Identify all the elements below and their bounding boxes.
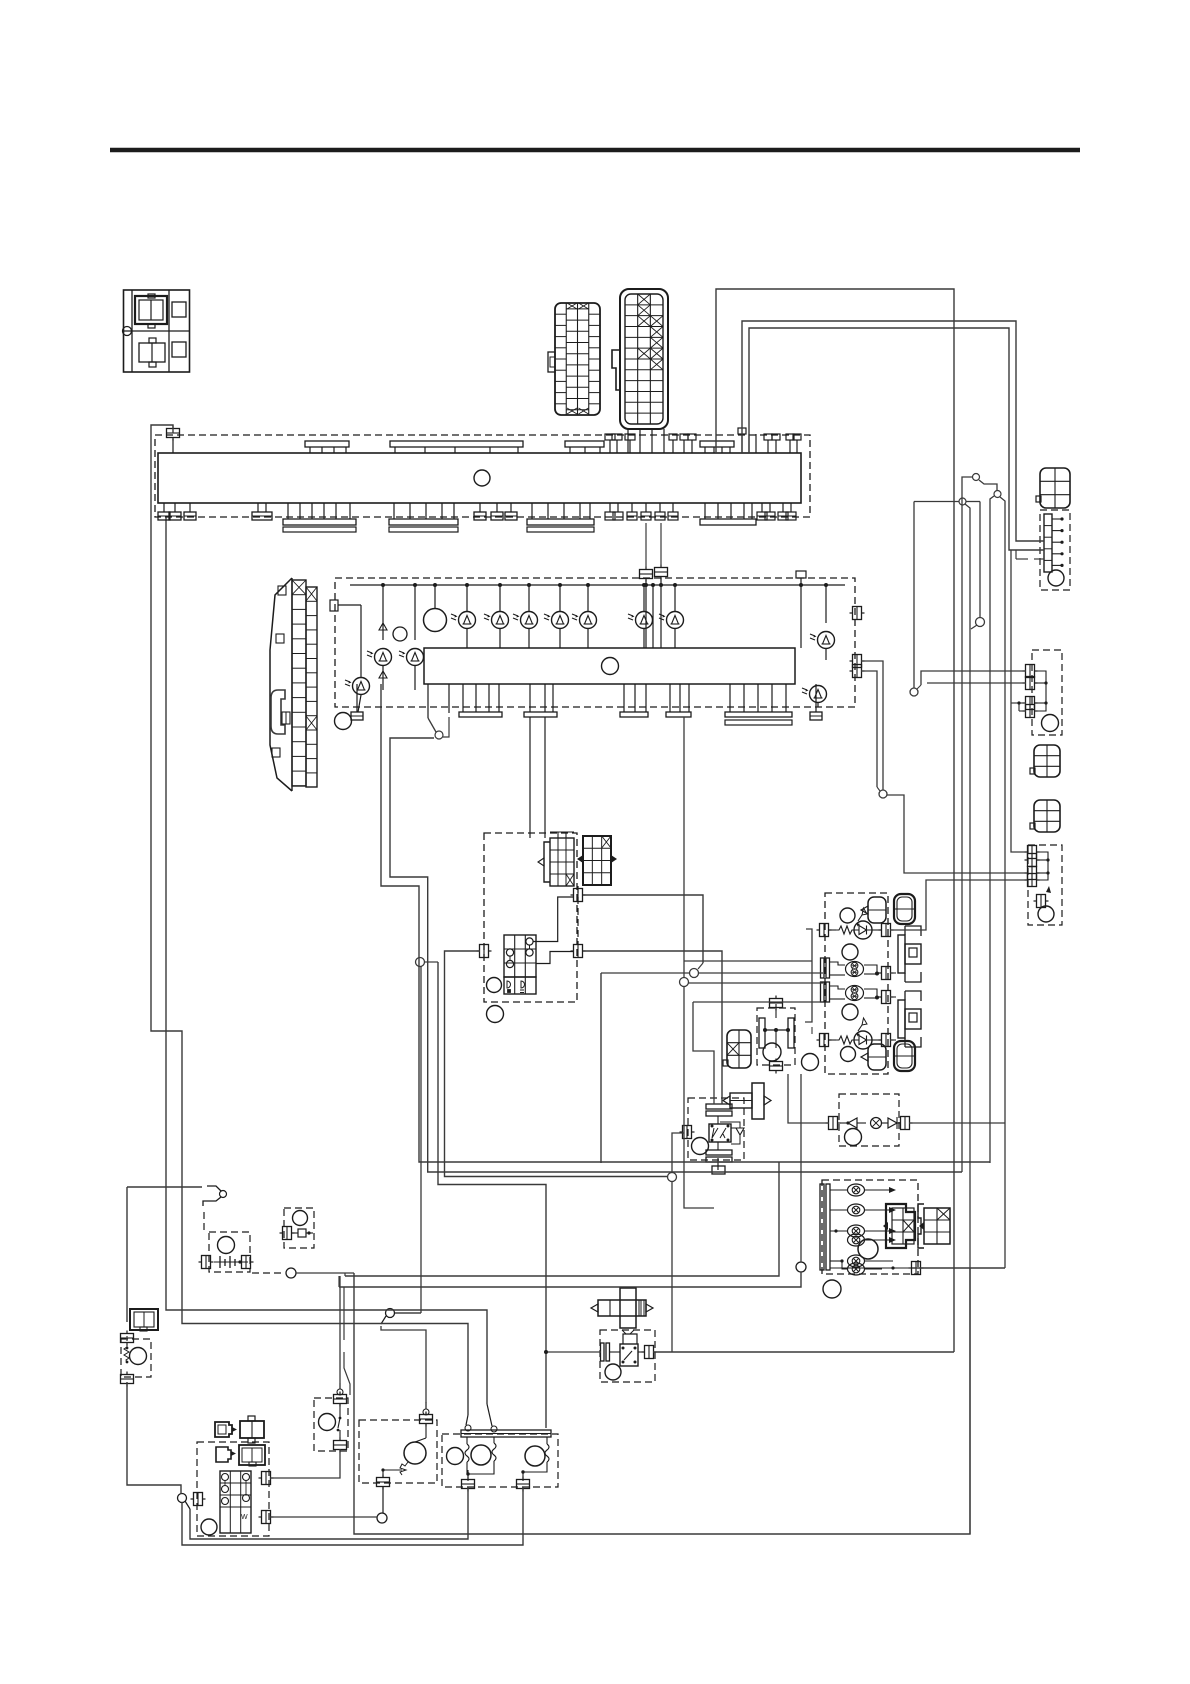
wire battery branch b <box>339 1272 801 1287</box>
sidestand relay stem <box>717 1158 719 1170</box>
ts pin right 1 <box>882 924 891 937</box>
neutral dashed box <box>359 1420 437 1483</box>
wire chainC to H2 <box>390 738 962 1172</box>
battery cells <box>214 1261 248 1263</box>
wire brake switch 1 <box>973 474 980 481</box>
flasher dashed box <box>757 1008 795 1065</box>
starter relay pin right <box>645 1346 654 1359</box>
tail bulbs 3 <box>848 1225 865 1237</box>
wire 672 up <box>672 1133 684 1173</box>
indicator lamp <box>580 612 597 629</box>
dashed box D2 <box>1032 650 1062 735</box>
wire junction 980 <box>976 618 985 627</box>
wire right trunk 1016 <box>742 321 1044 541</box>
neutral wire down <box>382 1470 384 1478</box>
starter relay pin left <box>601 1343 605 1361</box>
fuse2 circle <box>130 1348 147 1365</box>
sensor switch a <box>465 1425 471 1431</box>
connector D2 pin1 <box>1026 665 1035 678</box>
tail circle <box>858 1239 878 1259</box>
dashed drop to box <box>577 886 579 945</box>
indicator lamp <box>636 612 653 629</box>
ts outside circle <box>802 1054 819 1071</box>
sensors bus bar <box>461 1430 551 1437</box>
dashed box D1 <box>1040 510 1070 590</box>
wire diode left <box>788 1074 829 1123</box>
page frame header rule <box>110 148 1080 153</box>
ignition plug d <box>239 1445 265 1465</box>
tail bracket connector <box>886 1204 915 1248</box>
clutch switch dashed box <box>314 1398 348 1451</box>
wire chainD to circle672 <box>445 951 668 1177</box>
starter motor <box>620 1288 636 1328</box>
sensor circle 2 <box>471 1445 491 1465</box>
sensor pin B <box>517 1480 530 1489</box>
wire cluster right pin3 <box>853 665 862 678</box>
ts resistor 4 <box>836 1036 855 1044</box>
headlight box pin mid <box>574 945 583 958</box>
ts wire 3 <box>829 986 845 989</box>
lamp housing 1 <box>868 897 886 923</box>
dashed box D3 <box>1028 845 1062 925</box>
wire right trunk 1009 <box>749 328 1044 550</box>
wire brake junction 3 <box>959 498 966 505</box>
headlight switch block <box>504 935 536 977</box>
circle D1 <box>1048 570 1064 586</box>
ignition blade <box>185 1501 190 1509</box>
harness dashed outline <box>155 435 810 517</box>
tail bulb 1 <box>848 1184 865 1196</box>
ts bulbs 3 <box>846 986 864 1001</box>
harness top pin bars <box>305 441 349 447</box>
wire hl y961 <box>683 717 685 978</box>
starter relay dashed box <box>600 1330 655 1382</box>
harness bottom connectors 2 <box>631 503 633 512</box>
wire switch to mid pin <box>536 952 573 964</box>
cluster top bus wire <box>350 584 845 586</box>
harness top pin <box>167 429 180 438</box>
harness top single pins <box>609 440 611 453</box>
ts wire 2 <box>829 962 845 965</box>
starter relay circle <box>605 1364 621 1380</box>
connector R2 <box>1034 745 1060 777</box>
ts circle 1 <box>840 908 855 923</box>
ignition circle <box>201 1519 217 1535</box>
starter relay coil loop <box>623 1334 637 1344</box>
sidestand switch lead <box>203 1212 205 1230</box>
sensor switch b <box>491 1426 497 1432</box>
cluster left edge pin <box>330 600 338 611</box>
tail junction circle <box>796 1262 806 1272</box>
wire D3 joins <box>1036 852 1048 880</box>
T plug 2 <box>898 1000 905 1038</box>
cluster lamp left b <box>407 649 424 666</box>
wire 1011 bracket <box>1011 550 1026 852</box>
ts circle 4 <box>841 1047 856 1062</box>
cluster bottom bar 3 <box>620 712 648 717</box>
headlight box pin top <box>574 889 583 902</box>
flasher bottom pin <box>770 1062 783 1071</box>
ignition pin left <box>194 1493 203 1506</box>
connector grid B <box>620 289 668 429</box>
relay unit inner contact bottom <box>139 343 165 362</box>
relay unit box <box>124 290 190 372</box>
ts pin right 3 <box>882 991 891 1004</box>
wire headlight top pin right <box>583 895 703 963</box>
lamp housing 3 <box>868 1044 886 1070</box>
sensor coil 1 <box>465 1444 469 1462</box>
main fuse dashed box <box>284 1208 314 1248</box>
ts pin right 2 <box>882 967 891 980</box>
harness bottom bar 1 <box>283 519 356 525</box>
cluster big lamp circle <box>424 609 447 632</box>
sidestand relay circle <box>692 1138 709 1155</box>
relay unit mount circle <box>123 327 132 336</box>
wire d2 y683 <box>927 682 1026 684</box>
wire d2 y711 <box>1019 710 1026 712</box>
wire chainA harness pin to H1 <box>381 713 990 1162</box>
battery junction circle <box>286 1268 296 1278</box>
wire grid C drop b <box>544 717 546 838</box>
cluster lamp right a <box>818 632 835 649</box>
flasher top pin <box>770 999 783 1008</box>
wire switch to top pin <box>533 897 573 942</box>
fuse2 pin bottom <box>121 1375 134 1384</box>
cluster diode a <box>379 623 387 630</box>
harness bottom bar 2 <box>389 519 458 525</box>
relay unit terminal squares <box>172 302 186 317</box>
tail bus bars <box>820 1184 824 1270</box>
wire battery trunk <box>354 1268 970 1534</box>
sensor circle 3 <box>525 1446 545 1466</box>
wire grid C drop a <box>529 717 531 838</box>
wire y1002 <box>693 1001 823 1003</box>
headlight box pin left <box>480 945 489 958</box>
sidestand relay top bar <box>706 1104 732 1109</box>
ignition switch block <box>220 1471 251 1533</box>
starter relay wires <box>610 1351 620 1353</box>
cluster lamp bottom left <box>353 678 370 695</box>
harness top pins mid-right <box>672 440 674 453</box>
diode unit triangle <box>888 1118 897 1128</box>
ignition plug a <box>215 1422 232 1437</box>
battery pin left <box>202 1256 211 1269</box>
cluster top connector pins <box>640 570 653 579</box>
wire ignition left drop <box>182 1487 523 1545</box>
ts led 4 <box>854 1031 872 1049</box>
wire relay feed vert <box>671 1181 673 1352</box>
cluster lamp right b <box>810 686 827 703</box>
left connector shell <box>270 578 292 791</box>
ts pin left 4 <box>820 1034 829 1047</box>
connector grid C <box>550 838 574 886</box>
wire sidestand feed <box>127 1186 202 1188</box>
T plug sideways <box>752 1083 764 1119</box>
ts led 1 <box>854 921 872 939</box>
T plug 1 <box>898 935 905 973</box>
lamp housing 2 <box>894 894 915 924</box>
wire starter relay left <box>546 1351 601 1353</box>
connector R1 <box>1040 468 1070 508</box>
diode unit arrow diode <box>848 1118 857 1128</box>
circle D3 <box>1038 906 1054 922</box>
cluster bottom pin 380 <box>380 684 382 713</box>
diode unit x-circle <box>871 1118 882 1129</box>
sidestand relay body <box>709 1124 731 1142</box>
neutral junction circle <box>377 1513 387 1523</box>
battery dashed lead <box>252 1272 282 1274</box>
tail dashed box <box>822 1180 918 1274</box>
wire junction circle 672 <box>668 1173 677 1182</box>
harness top pins right <box>767 440 769 453</box>
sensor circle 1 <box>447 1448 464 1465</box>
ignition plug b <box>240 1421 264 1438</box>
wire junction 694 <box>690 969 699 978</box>
wire d2 y703 <box>1011 702 1026 704</box>
battery circle <box>218 1237 235 1254</box>
cluster inner body <box>424 648 795 684</box>
harness top wires up <box>741 434 743 453</box>
ts pin left 1 <box>820 924 829 937</box>
wire brake switch <box>428 718 436 732</box>
sensor coil 3 <box>545 1444 549 1462</box>
diode unit circle <box>845 1129 862 1146</box>
ts circle 3 <box>842 1004 858 1020</box>
wire starter relay right <box>653 1351 954 1353</box>
diode unit pin right <box>901 1117 910 1130</box>
fuse2 pin top <box>121 1334 134 1343</box>
harness body <box>158 453 801 503</box>
sensors dashed box <box>442 1434 558 1487</box>
wire 914 down <box>913 502 915 689</box>
ignition dashed box <box>197 1442 269 1536</box>
lamp housing 4 <box>894 1041 915 1071</box>
headlight box circle b <box>487 1006 504 1023</box>
cluster top right pin <box>796 571 806 578</box>
harness bottom pins <box>609 503 611 512</box>
harness bottom connectors mid <box>479 503 481 512</box>
indicator lamp <box>552 612 569 629</box>
main fuse element <box>283 1227 292 1240</box>
wire headlight mid to relay <box>583 951 722 1104</box>
neutral pin bottom <box>377 1478 390 1487</box>
cluster bottom bar 1 <box>459 712 502 717</box>
connector D3 twin <box>1028 846 1037 859</box>
battery wire right <box>296 1272 354 1274</box>
ts bulbs 2 <box>846 962 864 977</box>
wire harness to cluster a <box>645 523 647 567</box>
clutch switch pin bottom <box>334 1441 347 1450</box>
wire junction 684 <box>680 978 689 987</box>
wire cluster right pin2 <box>853 655 862 668</box>
tail below circle <box>823 1280 841 1298</box>
harness bottom connectors right <box>761 503 763 512</box>
headlight box circle a <box>487 978 502 993</box>
harness top bar right <box>700 441 734 447</box>
wire right trunk 954 <box>716 289 954 1352</box>
clutch switch circle <box>319 1414 336 1431</box>
flasher bars <box>759 1018 765 1048</box>
ts resistor 1 <box>836 926 855 934</box>
sensor coil 2 <box>492 1443 496 1461</box>
starter relay body <box>620 1344 638 1366</box>
relay unit inner contact top <box>135 296 167 324</box>
rounded grid RG <box>727 1030 751 1068</box>
tail bulbs 4 <box>848 1255 865 1267</box>
cluster bottom bar 5 <box>725 712 792 717</box>
sensor pin A <box>462 1480 475 1489</box>
fuse2 dashed box <box>121 1339 151 1377</box>
cluster small circle <box>393 627 407 641</box>
harness bottom left connectors <box>163 503 165 512</box>
ts circle 2 <box>842 944 858 960</box>
wire harness to cluster b <box>660 523 662 565</box>
wire junction 420 <box>416 958 425 967</box>
indicator lamp <box>521 612 538 629</box>
wire ts row1 to d3 <box>890 880 1026 930</box>
sidestand relay pin left <box>683 1126 692 1139</box>
wire tail pin to flasher <box>912 1267 1005 1269</box>
ignition junction circle <box>178 1494 187 1503</box>
circle D2 <box>1042 715 1059 732</box>
indicator lamp <box>492 612 509 629</box>
connector D3 pin <box>1028 867 1037 880</box>
neutral circle <box>404 1442 426 1464</box>
wire ignition pin1 to clutch <box>270 1449 340 1478</box>
harness wires from connector B <box>627 429 629 453</box>
tail bulb 2 <box>848 1204 865 1216</box>
connector grid D <box>583 836 611 885</box>
diode unit pin left <box>829 1117 838 1130</box>
harness centre circle <box>474 470 490 486</box>
ts bars 3 <box>821 982 825 1002</box>
sidestand relay wires <box>717 1116 719 1124</box>
svg-text:W: W <box>241 1514 248 1521</box>
battery dashed box <box>209 1232 250 1272</box>
sidestand relay diode <box>736 1128 744 1135</box>
sensor join wires <box>466 1470 468 1474</box>
indicator lamp <box>459 612 476 629</box>
ts bars 2 <box>821 958 825 978</box>
clutch switch pin top <box>334 1395 347 1404</box>
clutch switch contact <box>339 1404 341 1418</box>
connector D2 twin pins <box>1026 697 1035 710</box>
ignition plug c <box>216 1447 231 1462</box>
neutral zigzag <box>400 1462 408 1475</box>
harness bottom bar 3 <box>527 519 594 525</box>
battery pin right <box>242 1256 251 1269</box>
harness bottom pin pair <box>257 503 259 512</box>
diode unit dashed box <box>839 1094 899 1146</box>
wire ignition pin2 to neutral <box>270 1516 377 1518</box>
connector grid A <box>555 303 600 415</box>
sidestand relay dashed box <box>688 1098 744 1160</box>
cluster body circle <box>602 658 619 675</box>
tail second connector <box>924 1208 950 1244</box>
cluster bottom pin 816 <box>815 684 817 712</box>
ignition pin right 1 <box>262 1472 271 1485</box>
sidestand switch <box>207 1186 221 1191</box>
sidestand relay bottom bar <box>706 1150 732 1155</box>
wire battery branch a <box>345 1162 779 1276</box>
headlight dashed box <box>484 833 577 1002</box>
wire D2 joins <box>1034 671 1046 711</box>
harness bottom bar 4 <box>700 519 756 525</box>
wire junction 914 <box>910 688 918 696</box>
left connector grid <box>292 580 306 786</box>
tail pin right <box>912 1262 921 1275</box>
cluster diode b <box>379 671 387 678</box>
fuse box solid <box>130 1309 158 1330</box>
ts pin right 4 <box>882 1034 891 1047</box>
wire fuse chain <box>126 1187 128 1322</box>
wire ts right pins <box>890 972 896 974</box>
wire chainE lever drop <box>420 966 422 1313</box>
main fuse circle <box>293 1211 308 1226</box>
cluster lamp left a <box>375 649 392 666</box>
cluster lamp drop wires <box>466 585 468 611</box>
fuse2 element <box>124 1344 129 1363</box>
wire diode to tail <box>909 1122 1005 1124</box>
wire ignition blade drop <box>190 1487 468 1539</box>
cluster bottom connector far left <box>356 684 358 712</box>
wire branch clutch <box>339 1276 341 1383</box>
connector D3 arrow pin <box>1037 895 1046 908</box>
cluster bottom pins brake pair <box>427 684 429 718</box>
clutch lever circle <box>386 1309 395 1318</box>
wire brake switch 2 <box>994 491 1001 498</box>
wire branch neutral dash <box>343 1287 345 1340</box>
wire harness top-left loop <box>151 425 468 1415</box>
connector bar D1 <box>1044 514 1052 572</box>
wire neutral feed <box>381 1326 426 1403</box>
wire D1 dash entry <box>1016 558 1028 560</box>
connector D2 pin2 <box>1026 677 1035 690</box>
wire left second <box>166 527 487 1404</box>
cluster dashed outline <box>335 578 855 707</box>
flasher circle <box>763 1043 781 1061</box>
wire tail junction up <box>800 1074 802 1262</box>
wire junction 883 <box>879 790 887 798</box>
neutral contact <box>425 1424 427 1438</box>
cluster bottom left circle <box>335 713 352 730</box>
flasher shaft <box>765 1029 788 1031</box>
cluster bottom bar 2 <box>524 712 557 717</box>
neutral pin top <box>420 1415 433 1424</box>
wire cluster right pin1 <box>853 607 862 620</box>
connector R3 <box>1034 800 1060 832</box>
wire chainB to sensors <box>438 962 546 1428</box>
wire 812 drop <box>805 929 812 1022</box>
turn signal dashed box <box>825 893 888 1074</box>
ignition pin right 2 <box>262 1511 271 1524</box>
indicator lamp <box>667 612 684 629</box>
cluster bottom bar 4 <box>666 712 691 717</box>
